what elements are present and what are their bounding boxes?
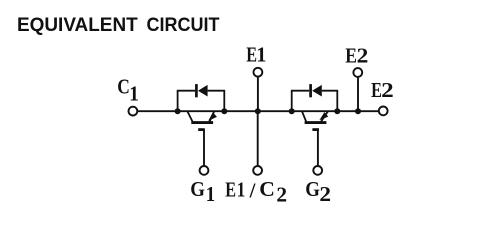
transistor Q2 emitter arrow xyxy=(317,112,328,123)
transistor Q1 gate bar xyxy=(198,128,205,131)
svg-text:2: 2 xyxy=(357,43,369,67)
transistor Q1 collector line xyxy=(187,111,192,122)
wire diode loop right side xyxy=(336,91,338,112)
svg-text:2: 2 xyxy=(381,78,394,102)
svg-text:G: G xyxy=(190,177,205,201)
svg-text:1: 1 xyxy=(206,182,215,206)
node E2 junction xyxy=(355,108,361,114)
node Q1 emitter junction xyxy=(221,108,227,114)
transistor Q1 body bar xyxy=(191,121,213,124)
svg-text:/: / xyxy=(249,179,257,203)
svg-text:1: 1 xyxy=(237,177,246,201)
transistor Q2 (IGBT 2) xyxy=(291,84,338,130)
title EQUIVALENT CIRCUIT xyxy=(17,15,220,36)
wire main horizontal bus C1 to E2 xyxy=(138,110,378,112)
wire diode loop left side xyxy=(177,91,179,112)
node Q1 collector junction xyxy=(175,108,181,114)
terminal E2 right end xyxy=(379,107,388,116)
transistor Q1 emitter line xyxy=(209,111,214,122)
svg-text:C: C xyxy=(259,177,275,201)
transistor Q1 (IGBT 1) xyxy=(177,84,225,130)
svg-text:2: 2 xyxy=(276,183,287,207)
wire diode loop top left segment xyxy=(291,90,309,92)
wire E1 vertical upper xyxy=(257,77,259,111)
diode D2 cathode bar xyxy=(309,84,312,97)
wire diode loop top right segment xyxy=(208,90,226,92)
terminal E1/C2 bottom xyxy=(253,166,262,175)
terminal G2 xyxy=(313,166,322,175)
diode D1 cathode bar xyxy=(195,84,198,97)
svg-text:1: 1 xyxy=(256,43,266,67)
terminal E2 top xyxy=(353,68,362,77)
terminal E1 top xyxy=(254,68,263,77)
svg-text:EQUIVALENT: EQUIVALENT xyxy=(17,15,138,36)
svg-text:CIRCUIT: CIRCUIT xyxy=(147,15,220,36)
transistor Q2 gate bar xyxy=(312,128,319,131)
diode D2 triangle xyxy=(312,85,322,97)
node E1 junction xyxy=(255,108,261,114)
terminal G1 xyxy=(200,166,209,175)
svg-text:E: E xyxy=(345,43,357,67)
node Q2 emitter junction xyxy=(334,108,340,114)
transistor Q2 emitter line xyxy=(321,111,328,122)
node Q2 collector junction xyxy=(289,108,295,114)
wire diode loop left side xyxy=(291,91,293,112)
wire E1/C2 vertical lower xyxy=(257,111,259,165)
wire diode loop top right segment xyxy=(322,90,338,92)
svg-text:G: G xyxy=(305,177,320,201)
wire G2 lead xyxy=(317,130,319,166)
wire E2 vertical xyxy=(357,78,359,112)
transistor Q2 body bar xyxy=(305,121,327,124)
transistor Q1 emitter arrow xyxy=(206,112,217,123)
labels (serif) xyxy=(117,43,394,207)
wire diode loop top left segment xyxy=(177,90,195,92)
wire diode loop right side xyxy=(223,91,225,112)
svg-text:2: 2 xyxy=(319,182,331,206)
svg-text:E: E xyxy=(225,177,236,201)
svg-text:1: 1 xyxy=(129,81,139,105)
svg-text:C: C xyxy=(117,75,130,99)
wire G1 lead xyxy=(203,130,205,166)
diode D1 triangle xyxy=(198,85,208,97)
terminal C1 xyxy=(129,107,138,116)
transistor Q2 collector line xyxy=(302,111,306,122)
